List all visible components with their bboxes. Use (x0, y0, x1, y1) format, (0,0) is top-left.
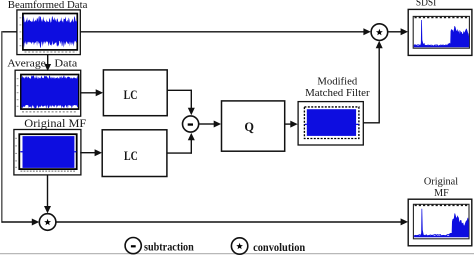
waveform average data (21, 75, 78, 108)
svg-text:LC: LC (124, 148, 138, 163)
svg-text:Original: Original (424, 176, 458, 187)
wire subtraction node to Q (199, 121, 221, 128)
wire scope3 to bottom convolution node (44, 175, 51, 214)
block LC1 (103, 70, 167, 116)
svg-text:Data: Data (54, 57, 77, 69)
svg-text:convolution: convolution (253, 242, 306, 254)
wire LC2 to subtraction node (167, 133, 195, 154)
scope box Beamformed Data (17, 10, 80, 55)
block LC2 (102, 130, 167, 177)
waveform original MF output (414, 209, 469, 237)
scope box original MF output (408, 199, 472, 246)
svg-text:subtraction: subtraction (144, 242, 194, 254)
wire scope2 to LC1 (80, 89, 103, 96)
top convolution node (371, 24, 388, 41)
scope3 axis tick marks (15, 138, 75, 171)
svg-text:Modified: Modified (317, 76, 357, 88)
wire Q to modified matched filter (285, 121, 298, 128)
legend subtraction symbol (125, 238, 141, 254)
legend text subtraction (144, 242, 194, 254)
label Modified Matched Filter (305, 76, 370, 99)
label Original MF (output) (424, 176, 458, 199)
waveform SDSI (414, 20, 469, 47)
block Q (222, 101, 285, 151)
svg-text:Matched Filter: Matched Filter (305, 87, 370, 99)
scope1 axis tick marks (20, 17, 77, 52)
wire average data arrow (scope1 to scope2) (44, 54, 51, 71)
wire scope3 to LC2 (80, 149, 102, 156)
svg-text:MF: MF (434, 188, 449, 199)
wire beamformed data to top convolution node (80, 31, 364, 33)
svg-text:Average: Average (7, 57, 46, 69)
svg-text:Q: Q (244, 119, 254, 134)
scope2 axis tick marks (17, 78, 78, 112)
wire beamformed data feedback (left edge, down, to bottom convolution) (2, 31, 32, 223)
wire modified matched filter to top convolution node (363, 41, 382, 124)
wire LC1 to subtraction node (167, 90, 195, 116)
wire top convolution node to SDSI (388, 28, 408, 35)
scope box Original MF input (14, 130, 81, 175)
label Beamformed Data (8, 0, 88, 11)
label SDSI (416, 0, 437, 9)
label Original MF (input) (24, 118, 86, 130)
svg-text:SDSI: SDSI (416, 0, 437, 9)
bottom convolution node (39, 214, 56, 231)
waveform beamformed data (23, 16, 77, 48)
wire bottom convolution node to original MF output (56, 218, 408, 225)
subtraction node (183, 116, 199, 132)
faint page rule at bottom (0, 253, 474, 255)
arrowhead into top convolution node (from beamformed data) (363, 28, 370, 35)
legend convolution symbol (231, 238, 247, 254)
waveform original MF block (20, 136, 76, 168)
legend text convolution (253, 242, 306, 254)
block modified matched filter (298, 102, 363, 145)
scope box Average Data (15, 70, 81, 116)
svg-text:Original MF: Original MF (24, 118, 86, 130)
scope box SDSI (408, 9, 472, 55)
arrowhead into bottom convolution node (32, 219, 39, 226)
svg-text:LC: LC (124, 87, 138, 102)
label Average Data (7, 57, 77, 69)
